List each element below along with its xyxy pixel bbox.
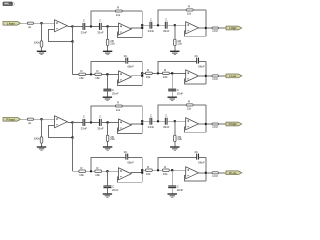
svg-text:C: C [99,115,102,119]
wire [131,172,143,174]
wire lp1 feedback [91,61,126,74]
resistor R 16k [146,72,153,74]
ground [103,50,112,52]
capacitor 2C 68nF [196,154,198,160]
svg-text:16k: 16k [79,76,84,80]
capacitor C 20nF [168,185,176,187]
wire [193,104,206,106]
wire [171,188,173,194]
resistor R 16k [146,169,153,171]
wire [142,169,145,171]
wire [73,73,79,75]
wire [41,143,43,147]
wire [205,61,207,84]
wire [174,46,176,52]
ground [103,146,112,148]
node lp1 mid [90,170,92,172]
svg-text:R: R [164,68,167,72]
svg-text:33nF: 33nF [148,125,155,129]
wire hp1 feedback [91,11,115,26]
wire [141,11,143,37]
resistor 100 [212,75,218,77]
wire [128,156,143,158]
svg-text:22k: 22k [110,137,115,141]
capacitor C 33nF [149,118,151,125]
node hp2 mid [157,120,159,122]
ground [37,146,46,148]
node hp2 plus [174,24,176,26]
wire [152,72,162,74]
op-amp hp1 [119,23,132,35]
wire lp2 feedback [158,61,197,73]
svg-text:16k: 16k [95,173,100,177]
wire [21,118,28,120]
wire [174,121,176,135]
svg-text:R: R [164,165,167,169]
svg-text:33nF: 33nF [81,126,88,130]
ground [170,50,179,52]
ground [168,96,177,98]
wire [102,170,119,172]
svg-text:100k: 100k [33,137,40,141]
resistor 100 [212,27,218,29]
wire [152,169,162,171]
wire lp1 feedback [91,157,126,171]
node lp1 out [141,75,143,77]
svg-text:33nF: 33nF [97,126,104,130]
wire [34,118,55,120]
wire [21,22,28,24]
wire hp1 unity fb [117,128,142,133]
svg-text:16k: 16k [146,75,151,79]
wire hp2 feedback [158,105,186,121]
capacitor 2C 68nF [125,154,127,160]
svg-text:2C: 2C [194,54,199,58]
wire [101,121,118,123]
input port R Input [3,117,21,121]
svg-text:20nF: 20nF [177,188,184,192]
wire [131,75,143,77]
wire [67,121,72,123]
svg-text:33nF: 33nF [81,30,88,34]
node hp1 mid [90,25,92,27]
resistor 1k [27,118,33,120]
svg-text:L High: L High [229,26,237,30]
node lp1 out [141,172,143,174]
op-amp lp2 [186,70,199,82]
svg-text:C: C [150,113,153,117]
resistor 100 [212,172,218,174]
wire buffer feedback [49,26,73,41]
wire [193,9,206,11]
svg-text:R Input: R Input [6,117,15,121]
svg-text:R: R [117,6,120,10]
svg-text:R: R [188,5,191,9]
capacitor 2C 68nF [125,58,127,64]
node lp1 plus [106,73,108,75]
resistor 1k [27,22,33,24]
wire [142,24,149,26]
wire [205,157,207,181]
svg-text:100: 100 [212,174,218,178]
wire [73,170,79,172]
capacitor C 33nF [164,118,166,125]
op-amp hp2 [186,22,199,34]
node hp1 out [141,27,143,29]
node hp2 plus [174,120,176,122]
wire lp2 unity fb [185,79,206,84]
op-amp buffer [55,20,68,32]
svg-text:R: R [80,69,83,73]
node lp2 out [205,172,207,174]
node hp1 mid [90,121,92,123]
capacitor C 20nF [103,185,111,187]
wire [131,27,143,29]
resistor 2R 22k [174,135,177,141]
ground [37,50,46,52]
wire [34,22,55,24]
node feedback tap [71,136,73,138]
wire [171,73,173,89]
ground [170,146,179,148]
wire [122,10,142,12]
svg-text:100k: 100k [33,41,40,45]
node hp1 plus [107,121,109,123]
wire [167,120,186,122]
svg-text:R: R [96,166,99,170]
svg-text:R Low: R Low [229,171,238,175]
wire [85,25,100,27]
wire hp2 unity fb [185,31,206,36]
resistor R 11k [115,10,122,12]
ground [103,193,112,195]
node lp2 mid [157,72,159,74]
ground [168,193,177,195]
node lp2 mid [157,169,159,171]
wire [198,75,206,77]
svg-text:33nF: 33nF [148,29,155,33]
wire [67,25,72,27]
svg-text:R: R [147,68,150,72]
svg-text:R: R [117,101,120,105]
node [141,24,143,26]
wire [106,91,108,97]
wire [41,119,43,137]
svg-text:22k: 22k [177,41,182,45]
svg-text:C: C [83,19,86,23]
output port R High [226,122,242,126]
wire [206,172,212,174]
resistor 2R 22k [106,135,109,141]
capacitor C 33nF [98,23,100,30]
resistor 2R 22k [106,39,109,45]
resistor R 16k [79,73,86,75]
svg-text:100: 100 [212,29,218,33]
wire [131,123,143,125]
op-amp hp1 [119,119,132,131]
svg-text:1k: 1k [28,121,32,125]
op-amp hp2 [186,118,199,130]
wire [198,27,206,29]
wire [86,73,95,75]
node [141,72,143,74]
node lp2 plus [171,72,173,74]
node hp2 out [205,123,207,125]
svg-text:100: 100 [212,125,218,129]
wire [152,24,166,26]
wire [174,142,176,148]
wire [167,24,186,26]
node hp2 out [205,27,207,29]
svg-text:2C: 2C [124,54,129,58]
node lp1 mid [90,73,92,75]
wire hp2 unity fb [185,127,206,132]
svg-text:22k: 22k [177,137,182,141]
ground [103,96,112,98]
wire lp1 unity fb [117,80,142,85]
capacitor C 33nF [149,22,151,29]
wire [101,25,118,27]
svg-text:68nF: 68nF [127,160,134,164]
svg-text:R: R [96,69,99,73]
wire [73,121,83,123]
wire [122,105,142,107]
wire [199,156,206,158]
wire [169,169,185,171]
wire buffer feedback [49,122,73,137]
node input junction [40,22,42,24]
wire hp2 feedback [158,10,186,25]
wire [106,188,108,194]
wire [141,61,143,85]
svg-text:16k: 16k [163,75,168,79]
wire [41,47,43,51]
wire [199,60,206,62]
svg-text:16k: 16k [95,76,100,80]
svg-text:R: R [147,165,150,169]
wire [206,123,212,125]
wire [107,46,109,52]
svg-text:100: 100 [212,77,218,81]
wire [206,75,212,77]
svg-text:68nF: 68nF [127,64,134,68]
resistor R 11k [115,105,122,107]
resistor R 11k [186,104,193,106]
output port L Low [226,74,242,78]
svg-text:2C: 2C [124,150,129,154]
svg-text:R: R [80,166,83,170]
svg-text:20nF: 20nF [112,91,119,95]
capacitor C 20nF [103,88,111,90]
node lp1 plus [106,170,108,172]
svg-text:C: C [165,17,168,21]
wire [141,157,143,182]
capacitor 2C 68nF [196,58,198,64]
wire lp2 unity fb [185,176,206,181]
capacitor C 33nF [82,119,84,126]
node lp2 plus [171,169,173,171]
capacitor C 33nF [82,23,84,30]
capacitor C 33nF [164,22,166,29]
wire [142,72,145,74]
node lp2 out [205,75,207,77]
node [141,120,143,122]
wire hp1 unity fb [117,32,142,37]
op-amp lp1 [119,168,132,180]
wire [142,120,149,122]
wire [86,170,95,172]
svg-text:16k: 16k [79,173,84,177]
node hp1 out [141,123,143,125]
svg-text:20nF: 20nF [112,188,119,192]
wire [206,27,212,29]
resistor 100 [212,123,218,125]
logo badge [3,2,13,6]
wire [205,105,207,132]
wire lp tap [72,42,74,75]
wire [174,25,176,39]
wire [171,91,173,97]
wire [205,10,207,36]
input port L Input [3,21,21,25]
wire [106,171,108,186]
op-amp lp2 [186,167,199,179]
svg-text:11k: 11k [116,108,121,112]
svg-text:C: C [150,17,153,21]
wire lp tap [72,138,74,172]
svg-text:22k: 22k [110,41,115,45]
wire [218,123,226,125]
svg-text:R: R [188,100,191,104]
wire [152,120,166,122]
node hp1 plus [107,25,109,27]
wire [218,172,226,174]
svg-text:2C: 2C [194,150,199,154]
wire [198,123,206,125]
svg-text:68nF: 68nF [198,64,205,68]
wire [218,75,226,77]
op-amp buffer [55,116,68,128]
svg-text:C: C [165,113,168,117]
svg-text:R High: R High [229,122,237,126]
node buffer output [71,121,73,123]
svg-text:1k: 1k [28,25,32,29]
wire [107,26,109,39]
wire [73,25,83,27]
svg-text:20nF: 20nF [177,91,184,95]
svg-text:11k: 11k [116,13,121,17]
svg-text:68nF: 68nF [198,160,205,164]
svg-text:L Low: L Low [229,74,237,78]
capacitor C 33nF [98,119,100,126]
wire [171,170,173,186]
wire [102,73,119,75]
svg-text:16k: 16k [146,172,151,176]
resistor R 11k [186,9,193,11]
wire [128,60,143,62]
svg-text:C: C [99,19,102,23]
output port L High [226,26,242,30]
wire [169,72,185,74]
capacitor C 20nF [168,88,176,90]
node [141,169,143,171]
resistor R 16k [163,72,170,74]
node feedback tap [71,40,73,42]
resistor R 16k [95,170,102,172]
resistor 100k [40,41,43,47]
resistor R 16k [79,170,86,172]
node input junction [40,118,42,120]
wire [218,27,226,29]
svg-text:11k: 11k [187,12,192,16]
wire [85,121,100,123]
wire lp2 feedback [158,157,197,170]
wire [107,142,109,148]
wire [106,74,108,89]
svg-text:C: C [83,115,86,119]
output port R Low [226,171,242,175]
resistor R 16k [95,73,102,75]
svg-text:33nF: 33nF [163,125,170,129]
wire hp1 feedback [91,106,115,122]
wire [41,23,43,41]
svg-text:33nF: 33nF [97,30,104,34]
wire [107,122,109,135]
svg-text:33nF: 33nF [163,29,170,33]
wire lp1 unity fb [117,177,142,182]
svg-text:11k: 11k [187,107,192,111]
resistor 2R 22k [174,39,177,45]
node buffer output [71,25,73,27]
resistor R 16k [163,169,170,171]
wire [198,172,206,174]
svg-text:L Input: L Input [7,21,15,25]
svg-text:16k: 16k [163,172,168,176]
op-amp lp1 [119,71,132,83]
node hp2 mid [157,24,159,26]
resistor 100k [40,137,43,143]
wire [141,106,143,133]
